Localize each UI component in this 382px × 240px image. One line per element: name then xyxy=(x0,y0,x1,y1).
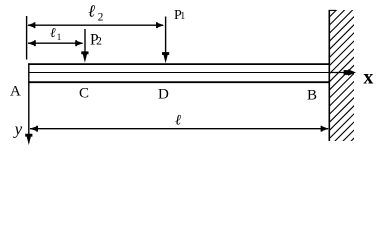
force P1 arrowhead xyxy=(162,52,169,63)
beam left edge xyxy=(28,63,30,83)
force P2 line xyxy=(84,29,86,57)
dimension line l2 xyxy=(28,24,163,26)
l2 left arrowhead xyxy=(27,22,35,28)
svg-text:1: 1 xyxy=(57,32,62,42)
x axis through wall xyxy=(330,72,349,74)
svg-text:2: 2 xyxy=(96,36,102,48)
beam axis middle line xyxy=(29,72,330,74)
svg-text:x: x xyxy=(363,66,373,88)
extension line at A xyxy=(26,16,28,60)
svg-text:ℓ: ℓ xyxy=(50,25,56,40)
svg-text:1: 1 xyxy=(180,11,185,22)
svg-text:D: D xyxy=(158,86,169,102)
l left arrowhead xyxy=(30,126,38,132)
svg-text:ℓ: ℓ xyxy=(88,1,95,20)
l1 left arrowhead xyxy=(28,40,36,46)
l right arrowhead xyxy=(321,126,329,132)
wall hatching xyxy=(325,0,360,175)
l1 right arrowhead xyxy=(75,40,83,46)
x axis arrowhead xyxy=(344,69,356,76)
wall top tick xyxy=(329,9,336,11)
wall edge xyxy=(328,10,330,141)
dimension line l (bottom) xyxy=(30,128,328,130)
y axis line xyxy=(28,83,30,140)
svg-text:ℓ: ℓ xyxy=(175,112,181,128)
l2 right arrowhead xyxy=(156,22,164,28)
force P2 arrowhead xyxy=(81,51,88,62)
beam bottom line xyxy=(28,81,329,83)
svg-text:A: A xyxy=(10,83,21,99)
svg-text:y: y xyxy=(13,120,23,139)
svg-text:B: B xyxy=(307,87,317,103)
dimension line l1 xyxy=(28,42,83,44)
beam top line xyxy=(28,63,329,65)
force P1 line xyxy=(165,17,167,58)
svg-text:2: 2 xyxy=(98,11,104,23)
y axis arrowhead xyxy=(25,134,32,145)
svg-text:C: C xyxy=(79,85,89,101)
